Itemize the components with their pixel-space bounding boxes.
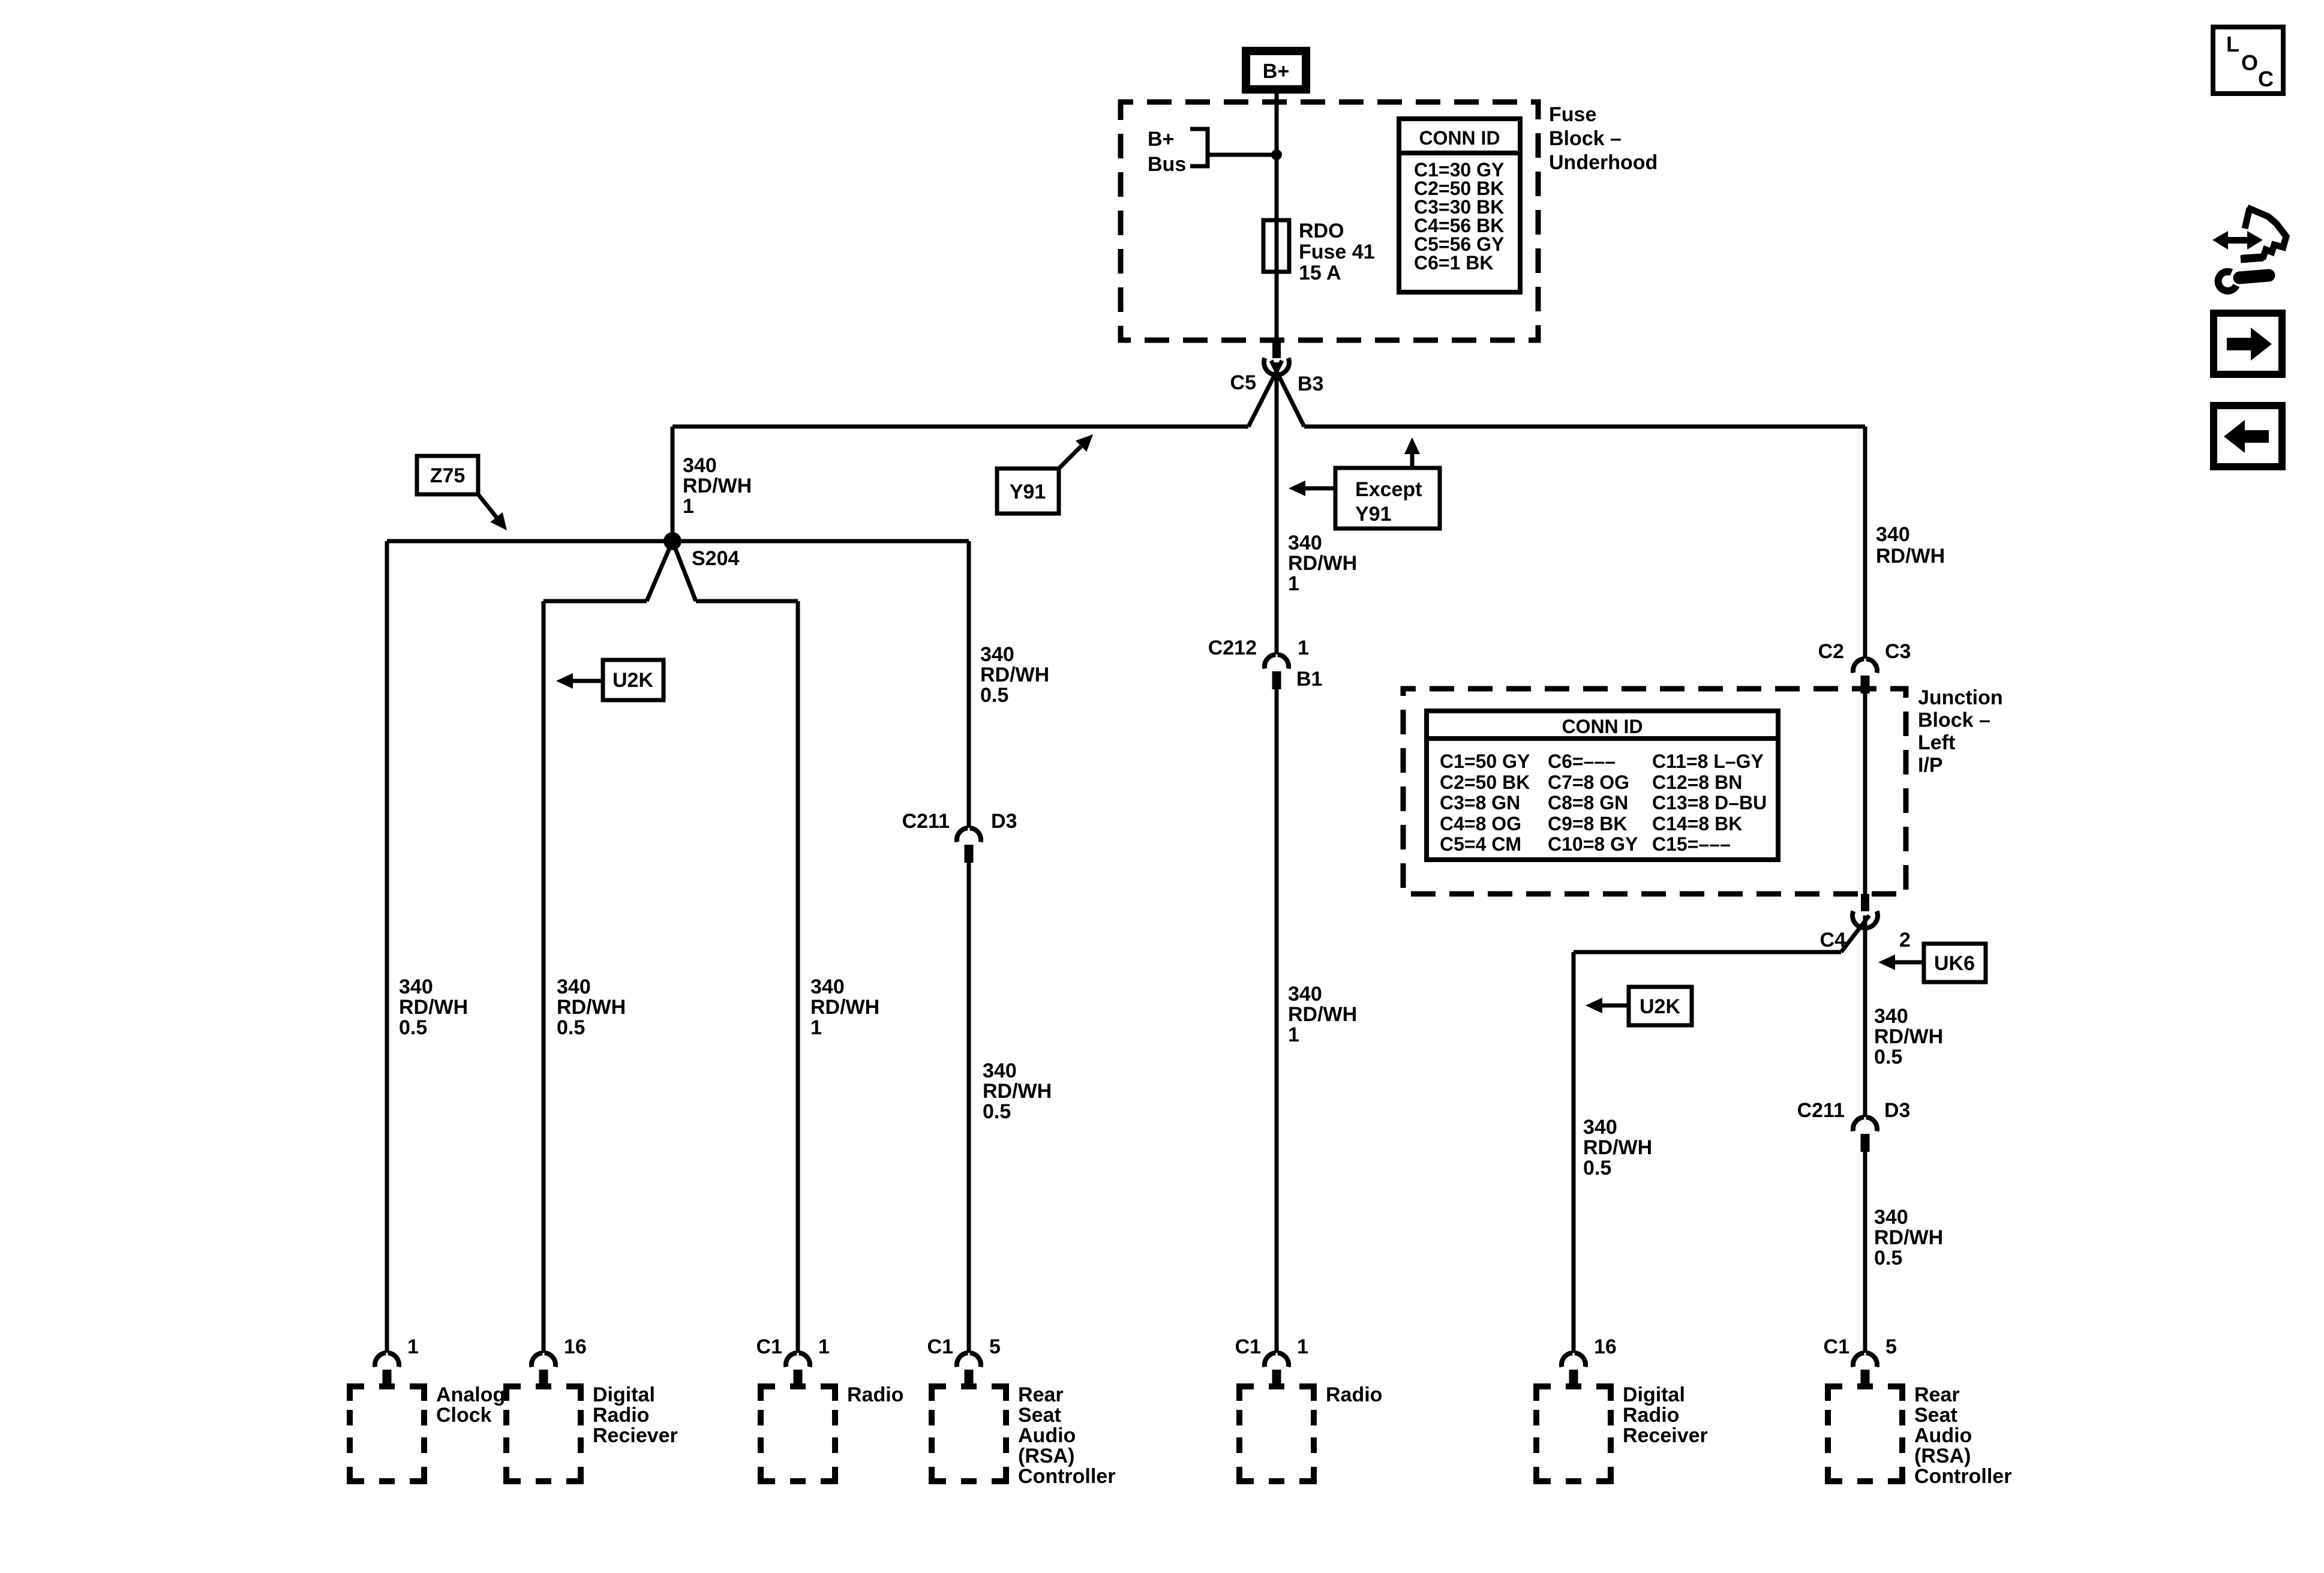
svg-text:C8=8 GN: C8=8 GN: [1548, 792, 1628, 813]
wire C4 diagonal: [1841, 915, 1869, 952]
B+ power symbol: [1246, 51, 1306, 89]
U2K option box (left): [603, 660, 663, 700]
svg-text:0.5: 0.5: [1874, 1247, 1902, 1269]
component box digital radio reciever (left): [506, 1386, 581, 1481]
connector at radio (left): [786, 1353, 810, 1367]
connector C2/C3 junction block: [1853, 659, 1877, 673]
svg-text:C15=–––: C15=–––: [1652, 833, 1731, 855]
svg-text:D3: D3: [991, 810, 1017, 833]
svg-text:C10=8 GY: C10=8 GY: [1548, 833, 1638, 855]
svg-text:Digital: Digital: [593, 1383, 655, 1406]
svg-text:(RSA): (RSA): [1914, 1445, 1971, 1467]
wire Y split right: [1271, 361, 1304, 427]
svg-text:Y91: Y91: [1355, 503, 1392, 526]
svg-text:RD/WH: RD/WH: [1583, 1136, 1652, 1159]
svg-text:Junction: Junction: [1918, 686, 2003, 709]
svg-text:16: 16: [564, 1335, 587, 1358]
svg-text:RD/WH: RD/WH: [1874, 1025, 1943, 1048]
wire to digital radio receiver (right): [1572, 952, 1576, 1353]
wire center to radio: [1275, 687, 1279, 1353]
UK6 option box: [1924, 944, 1986, 982]
svg-text:C211: C211: [902, 810, 950, 833]
svg-text:B+: B+: [1148, 128, 1174, 151]
LOC legend box: [2213, 27, 2283, 94]
svg-text:C3=8 GN: C3=8 GN: [1440, 792, 1520, 813]
svg-text:Audio: Audio: [1018, 1424, 1076, 1447]
svg-text:Y91: Y91: [1010, 481, 1046, 503]
svg-text:0.5: 0.5: [980, 684, 1008, 707]
connector at digital radio receiver (right): [1562, 1353, 1586, 1367]
fuse RDO Fuse 41 15 A: [1263, 220, 1289, 272]
svg-text:340: 340: [683, 454, 717, 477]
svg-text:5: 5: [1885, 1335, 1897, 1358]
wire through fuse: [1275, 222, 1279, 340]
svg-text:Receiver: Receiver: [1623, 1424, 1708, 1447]
svg-text:340: 340: [810, 975, 845, 998]
svg-text:B3: B3: [1298, 373, 1323, 395]
svg-text:1: 1: [818, 1335, 830, 1358]
svg-text:CONN ID: CONN ID: [1562, 716, 1643, 737]
UK6 arrow: [1894, 960, 1924, 965]
svg-text:C1: C1: [1824, 1335, 1849, 1358]
svg-text:C6=1 BK: C6=1 BK: [1414, 252, 1494, 274]
svg-text:C4=8 OG: C4=8 OG: [1440, 813, 1521, 834]
svg-text:340: 340: [1288, 983, 1322, 1005]
wire bus corner down to S204: [671, 427, 675, 541]
svg-text:1: 1: [683, 495, 694, 518]
svg-text:C6=–––: C6=–––: [1548, 751, 1616, 772]
svg-text:Fuse: Fuse: [1549, 103, 1596, 126]
svg-text:I/P: I/P: [1918, 754, 1943, 777]
svg-text:1: 1: [1297, 1335, 1308, 1358]
svg-text:Analog: Analog: [436, 1383, 505, 1406]
Y91 arrow: [1059, 446, 1081, 469]
wire Y split left: [1248, 361, 1282, 427]
svg-text:Rear: Rear: [1018, 1383, 1064, 1406]
svg-text:340: 340: [557, 975, 591, 998]
svg-text:C5=4 CM: C5=4 CM: [1440, 833, 1521, 855]
connector at RSA controller (left): [957, 1353, 981, 1367]
svg-text:Clock: Clock: [436, 1404, 492, 1427]
service info icon (double arrow, outline, wrench): [2212, 208, 2286, 291]
svg-text:340: 340: [399, 975, 433, 998]
svg-text:C: C: [2258, 67, 2274, 91]
svg-text:CONN ID: CONN ID: [1419, 127, 1500, 149]
svg-text:L: L: [2226, 32, 2239, 56]
svg-text:0.5: 0.5: [557, 1016, 585, 1039]
svg-text:C7=8 OG: C7=8 OG: [1548, 772, 1629, 793]
svg-text:U2K: U2K: [1640, 995, 1680, 1018]
svg-text:5: 5: [989, 1335, 1001, 1358]
Except Y91 option box: [1335, 468, 1440, 529]
component box radio (left): [761, 1386, 835, 1481]
component box RSA controller (right): [1828, 1386, 1902, 1481]
svg-text:RD/WH: RD/WH: [1874, 1226, 1943, 1249]
wire C4 down: [1863, 915, 1867, 1117]
svg-text:1: 1: [1288, 1023, 1299, 1046]
connector C212: [1265, 655, 1289, 668]
svg-text:Radio: Radio: [1623, 1404, 1679, 1427]
B+ Bus tap bracket: [1190, 129, 1208, 166]
svg-text:C2=50 BK: C2=50 BK: [1440, 772, 1530, 793]
svg-text:RD/WH: RD/WH: [683, 475, 752, 497]
svg-text:S204: S204: [692, 547, 739, 570]
svg-text:U2K: U2K: [612, 669, 653, 692]
wire to RSA controller (left): [967, 541, 971, 828]
wire S204 horizontal: [387, 539, 969, 544]
svg-text:Underhood: Underhood: [1549, 151, 1658, 174]
svg-text:Seat: Seat: [1018, 1404, 1061, 1427]
svg-text:Z75: Z75: [430, 464, 466, 487]
svg-text:RD/WH: RD/WH: [810, 996, 879, 1019]
svg-text:C9=8 BK: C9=8 BK: [1548, 813, 1628, 834]
connector C211/D3 (left): [957, 828, 981, 842]
svg-text:Block –: Block –: [1549, 127, 1622, 150]
svg-text:Controller: Controller: [1018, 1465, 1115, 1488]
connector C211/D3 (right): [1853, 1117, 1877, 1131]
svg-text:Left: Left: [1918, 731, 1955, 754]
svg-text:C1: C1: [927, 1335, 953, 1358]
svg-text:Radio: Radio: [1326, 1383, 1382, 1406]
svg-text:RDO: RDO: [1299, 220, 1344, 242]
svg-text:340: 340: [1874, 1005, 1908, 1028]
svg-text:C2: C2: [1818, 640, 1844, 663]
svg-text:Reciever: Reciever: [593, 1424, 678, 1447]
svg-text:Radio: Radio: [847, 1383, 903, 1406]
component box analog clock: [350, 1386, 424, 1481]
Z75 arrow: [478, 494, 497, 517]
svg-text:B+: B+: [1263, 60, 1289, 83]
CONN ID table (junction block): [1427, 711, 1778, 860]
wire to radio (left): [796, 601, 800, 1353]
svg-text:Block –: Block –: [1918, 709, 1990, 732]
svg-text:16: 16: [1594, 1335, 1617, 1358]
Y91 option box: [997, 469, 1059, 514]
svg-text:C12=8 BN: C12=8 BN: [1652, 772, 1742, 793]
svg-text:C211: C211: [1797, 1099, 1845, 1122]
wire bus right: [1304, 425, 1865, 429]
svg-text:340: 340: [983, 1059, 1017, 1082]
svg-text:C3: C3: [1885, 640, 1911, 663]
svg-text:RD/WH: RD/WH: [1288, 552, 1357, 575]
splice S204 dot: [663, 532, 681, 550]
U2K option box (right): [1629, 987, 1692, 1025]
connector at digital radio reciever (left): [532, 1353, 556, 1367]
wire S204 right diagonal: [672, 541, 696, 601]
svg-text:C1: C1: [756, 1335, 782, 1358]
svg-text:C11=8 L–GY: C11=8 L–GY: [1652, 751, 1764, 772]
Z75 option box: [417, 456, 478, 494]
svg-text:1: 1: [810, 1016, 822, 1039]
svg-text:RD/WH: RD/WH: [980, 664, 1049, 686]
wire C211 to RSA left: [967, 860, 971, 1353]
wire left branch horizontal: [544, 599, 647, 604]
connector at analog clock: [375, 1353, 399, 1367]
wire B+ down to fuse: [1275, 94, 1279, 222]
svg-text:340: 340: [980, 643, 1014, 666]
svg-text:Fuse 41: Fuse 41: [1299, 241, 1375, 263]
wire bus left: [672, 425, 1248, 429]
svg-text:Digital: Digital: [1623, 1383, 1685, 1406]
wire to digital radio reciever: [542, 601, 546, 1353]
component box RSA controller (left): [932, 1386, 1006, 1481]
svg-text:C1=50 GY: C1=50 GY: [1440, 751, 1530, 772]
svg-text:Controller: Controller: [1914, 1465, 2011, 1488]
fuse block dashed outline: [1121, 102, 1538, 340]
svg-text:C212: C212: [1208, 637, 1257, 659]
svg-text:B1: B1: [1296, 668, 1322, 691]
connector at RSA controller (right): [1853, 1353, 1877, 1367]
svg-text:RD/WH: RD/WH: [1288, 1003, 1357, 1026]
svg-text:340: 340: [1874, 1206, 1908, 1229]
svg-text:Rear: Rear: [1914, 1383, 1960, 1406]
connector C4 junction block: [1861, 894, 1869, 911]
U2K left arrow: [572, 679, 603, 683]
svg-text:Radio: Radio: [593, 1404, 649, 1427]
svg-text:C14=8 BK: C14=8 BK: [1652, 813, 1742, 834]
svg-text:RD/WH: RD/WH: [557, 996, 626, 1019]
svg-text:15 A: 15 A: [1299, 262, 1341, 284]
svg-text:Bus: Bus: [1148, 153, 1186, 176]
forward arrow box: [2214, 313, 2282, 374]
svg-text:1: 1: [1288, 572, 1299, 595]
wire bus corner down to C2/C3: [1863, 427, 1867, 659]
svg-text:RD/WH: RD/WH: [399, 996, 468, 1019]
U2K right arrow: [1601, 1004, 1629, 1008]
svg-text:D3: D3: [1884, 1099, 1910, 1122]
component box digital radio receiver (right): [1536, 1386, 1611, 1481]
wire center down to C212: [1275, 362, 1279, 655]
svg-text:1: 1: [1298, 637, 1309, 659]
connector at radio (center): [1265, 1353, 1289, 1367]
svg-text:0.5: 0.5: [983, 1100, 1011, 1123]
component box radio (center): [1239, 1386, 1314, 1481]
svg-text:O: O: [2241, 50, 2258, 75]
svg-text:RD/WH: RD/WH: [1876, 545, 1945, 568]
svg-text:C13=8 D–BU: C13=8 D–BU: [1652, 792, 1767, 813]
svg-text:Audio: Audio: [1914, 1424, 1972, 1447]
svg-text:UK6: UK6: [1934, 952, 1975, 975]
svg-text:0.5: 0.5: [1874, 1046, 1902, 1068]
svg-text:340: 340: [1583, 1116, 1617, 1139]
Except Y91 left arrow: [1304, 487, 1335, 491]
svg-text:0.5: 0.5: [399, 1016, 427, 1039]
svg-text:C5: C5: [1230, 371, 1256, 394]
svg-text:1: 1: [407, 1335, 419, 1358]
svg-text:C1: C1: [1235, 1335, 1261, 1358]
Except Y91 up arrow: [1410, 454, 1415, 468]
back arrow box: [2214, 406, 2282, 467]
junction block dashed outline: [1403, 689, 1906, 894]
svg-text:340: 340: [1288, 532, 1322, 554]
svg-text:Seat: Seat: [1914, 1404, 1957, 1427]
wire inside junction block: [1863, 691, 1867, 894]
wire right branch horizontal: [696, 599, 798, 604]
junction dot B+ bus: [1271, 149, 1282, 160]
wire C211 to RSA right: [1863, 1149, 1867, 1353]
svg-text:0.5: 0.5: [1583, 1157, 1611, 1179]
connector C5/B3 at fuse block: [1272, 340, 1281, 358]
wire S204 left diagonal: [647, 541, 672, 601]
svg-text:2: 2: [1899, 929, 1911, 951]
wire branch horizontal to DRR right: [1574, 950, 1841, 954]
CONN ID table (fuse block): [1399, 119, 1520, 292]
wire to analog clock: [385, 541, 389, 1353]
svg-text:(RSA): (RSA): [1018, 1445, 1074, 1467]
svg-text:Except: Except: [1355, 478, 1422, 501]
svg-text:RD/WH: RD/WH: [983, 1080, 1052, 1103]
svg-text:340: 340: [1876, 523, 1910, 546]
